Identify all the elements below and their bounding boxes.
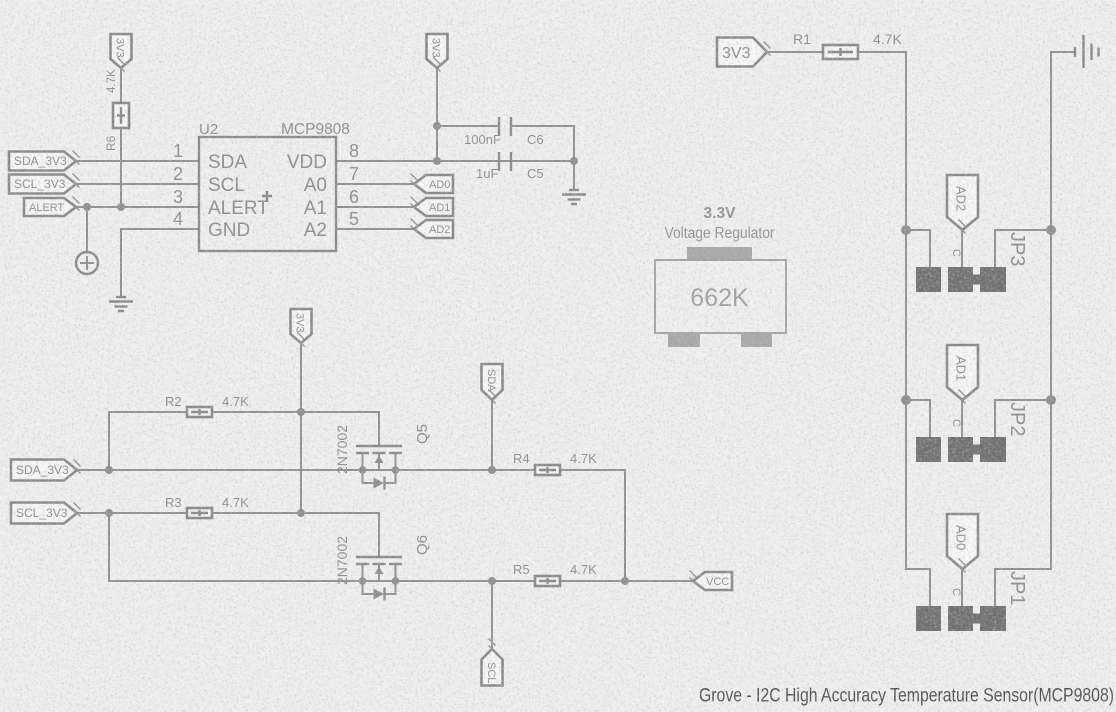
wire 3V3 down to VDD <box>436 68 438 161</box>
wire right rail to JP1 pad <box>995 569 1051 606</box>
resistor R3 <box>187 508 212 518</box>
supply 3V3 (top-left) <box>111 34 132 68</box>
wire right rail to JP2 pad <box>995 400 1051 437</box>
flag 3V3 (top right, horizontal) <box>717 38 767 67</box>
wire right rail to JP3 pad <box>995 230 1051 267</box>
wire 3V3 to R1 <box>767 51 823 53</box>
junction left rail JP3 <box>901 225 911 235</box>
flag VCC <box>693 572 732 590</box>
junction R4/R5 <box>621 577 629 585</box>
ground (under caps) <box>562 190 586 204</box>
resistor R5 <box>535 576 560 586</box>
ground (left) <box>109 297 133 311</box>
junction right rail JP2 <box>1046 395 1056 405</box>
flag SCL_3V3 (top) <box>9 175 76 194</box>
wire 3V3 vertical <box>300 343 302 513</box>
flag AD1 <box>414 198 453 216</box>
resistor R2 <box>187 407 212 417</box>
wire SCL_3V3 down <box>109 513 363 581</box>
junction right rail JP3 <box>1046 225 1056 235</box>
capacitor C5 <box>499 152 511 171</box>
junction R6-ALERT <box>117 203 125 211</box>
wire left rail to JP3 pad <box>906 230 930 267</box>
wire left rail to JP1 pad <box>906 569 930 606</box>
wire pin7 A0 <box>336 183 414 185</box>
wire AD1 to JP2 pad <box>961 400 963 437</box>
wire pin4 GND <box>121 229 199 297</box>
flag SCL (vertical, points up) <box>482 649 503 686</box>
jumper JP1 pads <box>916 606 1006 631</box>
wire pin5 A2 <box>336 228 414 230</box>
ground (top right, horizontal) <box>1075 35 1099 68</box>
wire AD0 to JP1 pad <box>961 569 963 606</box>
junction left rail JP2 <box>901 395 911 405</box>
wire R1 to left rail <box>858 52 906 569</box>
wire left rail to JP2 pad <box>906 400 930 437</box>
junction C5 right <box>570 157 578 165</box>
wire R2 net to Q5 gate <box>109 412 379 446</box>
supply 3V3 (above caps) <box>427 34 448 68</box>
supply 3V3 (bottom section) <box>291 309 312 343</box>
junction C6 tee <box>433 122 441 130</box>
wire pin8 VDD <box>336 160 574 162</box>
junction SCL_3V3 branch <box>105 509 113 517</box>
resistor R4 <box>535 465 560 475</box>
resistor R1 <box>823 45 858 59</box>
junction SDA flag <box>488 466 496 474</box>
wire SCL net <box>363 580 694 582</box>
wire to polarity circle <box>86 207 88 252</box>
wire ground to right rail <box>1051 52 1075 569</box>
junction R2/3V3 <box>297 408 305 416</box>
resistor R6 <box>113 103 129 128</box>
junction SCL flag <box>488 577 496 585</box>
wire pin6 A1 <box>336 206 414 208</box>
junction SDA/R2 <box>105 466 113 474</box>
wire C5 to ground <box>573 161 575 190</box>
flag AD0 <box>414 175 453 193</box>
pin connection cross marks <box>73 42 966 653</box>
op IC U2 MCP9808 box <box>199 137 336 251</box>
junction R3/3V3 <box>297 509 305 517</box>
wire SCL flag <box>491 581 493 649</box>
polarity circle mark <box>76 252 98 274</box>
wire R3 net to Q6 gate <box>77 513 379 557</box>
wire C6 right <box>512 126 574 161</box>
flag SCL_3V3 (bottom) <box>11 503 77 524</box>
flag AD0 (vertical) <box>947 514 978 569</box>
wire C6 left <box>437 125 498 127</box>
capacitor C6 <box>499 117 511 136</box>
junction ALERT branch <box>83 203 91 211</box>
jumper JP2 pads <box>916 437 1006 462</box>
flag AD2 (vertical) <box>947 175 978 230</box>
wire SDA flag <box>491 400 493 470</box>
anchor plus mark <box>262 191 272 201</box>
junction VDD tee <box>433 157 441 165</box>
wire pin3 ALERT <box>76 206 199 208</box>
transistor Q5 2N7002 <box>356 446 402 490</box>
flag SDA_3V3 (top) <box>9 152 76 171</box>
transistor Q6 2N7002 <box>356 557 402 601</box>
wire R2 to SDA_3V3 <box>108 412 110 470</box>
regulator 662K body <box>655 247 786 347</box>
flag ALERT <box>24 198 76 216</box>
wire 3V3 to R6 <box>120 68 122 103</box>
wire pin1 SDA <box>76 160 199 162</box>
wire R6 to ALERT net <box>120 128 122 207</box>
wire pin2 SCL <box>76 183 199 185</box>
wire AD2 to JP3 pad <box>961 230 963 267</box>
flag SDA (vertical) <box>482 364 503 400</box>
flag SDA_3V3 (bottom) <box>11 460 77 481</box>
wire SDA net <box>77 470 625 581</box>
jumper JP3 pads <box>916 267 1006 292</box>
flag AD1 (vertical) <box>947 345 978 400</box>
flag AD2 <box>414 220 453 238</box>
